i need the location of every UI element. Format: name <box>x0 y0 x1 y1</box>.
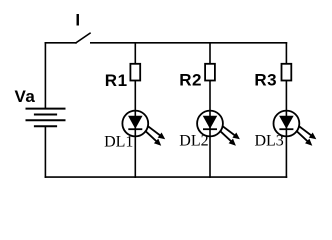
wire top from switch to right corner <box>91 42 287 44</box>
wire branch 3 vertical upper <box>285 43 287 63</box>
wire left vertical lower <box>44 126 46 177</box>
DL2 light arrow 1 <box>222 126 235 136</box>
DL3 cathode bar <box>279 128 293 130</box>
DL2 cathode bar <box>203 128 217 130</box>
wire branch 1 vertical upper <box>134 43 136 63</box>
DL1 diode triangle <box>129 116 142 128</box>
DL2 circle <box>197 111 223 137</box>
wire branch 3 vertical lower <box>285 81 287 177</box>
DL1 circle <box>122 111 148 137</box>
svg-text:DL2: DL2 <box>179 133 208 150</box>
DL3 light arrow 1 <box>298 126 311 136</box>
resistor R2 <box>205 64 215 81</box>
LED DL2 <box>197 111 240 146</box>
battery Va long plate 1 <box>27 108 65 110</box>
wire branch 2 vertical upper <box>209 43 211 63</box>
DL2 diode triangle <box>204 116 217 128</box>
svg-text:R3: R3 <box>254 70 277 89</box>
battery Va short plate 1 <box>35 114 56 116</box>
LED DL1 <box>122 111 165 146</box>
svg-text:I: I <box>75 11 80 30</box>
wire top-left segment <box>45 42 76 44</box>
svg-text:Va: Va <box>15 87 36 106</box>
wire branch 1 vertical lower <box>134 81 136 177</box>
DL2 light arrow 2 <box>220 131 231 141</box>
switch I blade <box>76 33 90 43</box>
svg-text:DL1: DL1 <box>104 134 133 151</box>
resistor R3 <box>282 64 292 81</box>
LED DL3 <box>274 111 317 146</box>
battery Va short plate 2 <box>35 125 56 127</box>
wire bottom <box>45 176 286 178</box>
wire left vertical upper <box>44 43 46 109</box>
svg-text:R2: R2 <box>179 70 202 89</box>
wire branch 2 vertical lower <box>209 81 211 177</box>
svg-text:R1: R1 <box>105 71 128 90</box>
DL3 light arrow 2 <box>297 131 308 141</box>
DL1 light arrow 2 <box>146 131 157 141</box>
DL1 light arrow 1 <box>147 126 160 136</box>
battery Va long plate 2 <box>27 119 65 121</box>
svg-text:DL3: DL3 <box>254 133 283 150</box>
DL1 cathode bar <box>128 128 142 130</box>
DL3 circle <box>274 111 300 137</box>
resistor R1 <box>130 64 140 81</box>
DL3 diode triangle <box>280 116 293 128</box>
